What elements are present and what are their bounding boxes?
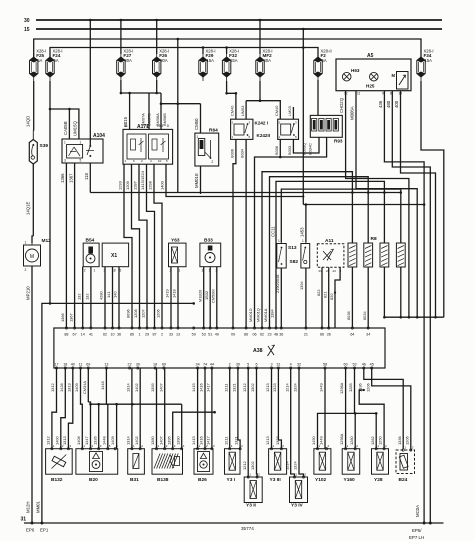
svg-text:1450: 1450 bbox=[311, 436, 316, 445]
svg-text:31: 31 bbox=[21, 517, 27, 523]
svg-text:A38: A38 bbox=[253, 348, 263, 354]
wire ground bus y303 bbox=[42, 303, 194, 523]
svg-text:41: 41 bbox=[89, 333, 93, 337]
wire ECU4 to Y3IV-1 bbox=[291, 368, 295, 477]
wire coil3 riser bbox=[276, 181, 384, 328]
wire right bus y317 bbox=[384, 316, 443, 318]
wire K242II out B003 to R93 bbox=[293, 137, 319, 153]
svg-text:1285: 1285 bbox=[348, 383, 353, 392]
svg-text:64: 64 bbox=[350, 333, 354, 337]
coil R8-3 bbox=[380, 243, 389, 267]
svg-text:45: 45 bbox=[370, 363, 374, 367]
svg-text:1206: 1206 bbox=[404, 436, 409, 445]
wire A11 out 821 bbox=[328, 267, 330, 328]
injector Y3 I bbox=[225, 449, 241, 475]
svg-text:1367: 1367 bbox=[68, 173, 73, 183]
wire F27 to rail30 bbox=[120, 20, 122, 54]
svg-text:11: 11 bbox=[125, 124, 129, 128]
svg-text:Y3 II: Y3 II bbox=[246, 503, 257, 509]
injector Y3 IV bbox=[290, 477, 308, 503]
junction MM01 ground bbox=[40, 522, 43, 525]
svg-text:32: 32 bbox=[297, 363, 301, 367]
sensor B54 bbox=[83, 238, 99, 273]
svg-text:8096: 8096 bbox=[126, 309, 131, 318]
svg-text:1: 1 bbox=[64, 141, 66, 145]
svg-text:MM01Q: MM01Q bbox=[256, 308, 261, 322]
svg-text:1324: 1324 bbox=[293, 383, 298, 392]
fuse F24 bbox=[46, 49, 63, 82]
svg-text:1323: 1323 bbox=[272, 383, 277, 392]
svg-text:1415: 1415 bbox=[191, 383, 196, 392]
switch S82 bbox=[301, 239, 310, 268]
wire ECU13 to B20-5 bbox=[105, 368, 107, 404]
wire W1 drop joins coil bus bbox=[177, 39, 179, 193]
svg-text:B31: B31 bbox=[130, 477, 139, 483]
svg-text:1380: 1380 bbox=[150, 436, 155, 445]
wire B54 out1 bbox=[82, 267, 84, 328]
wire ECU5 to Y3II-1 bbox=[247, 368, 249, 477]
wire coil2 to ECU bbox=[270, 177, 369, 328]
wire A171 out 1287 bbox=[139, 164, 147, 328]
svg-text:18: 18 bbox=[63, 363, 67, 367]
svg-text:86: 86 bbox=[244, 333, 248, 337]
relay K242 II bbox=[278, 119, 299, 139]
lamp H63 bbox=[342, 72, 351, 81]
svg-text:1: 1 bbox=[302, 239, 304, 243]
svg-text:480: 480 bbox=[386, 100, 391, 108]
svg-text:UM15Q: UM15Q bbox=[73, 121, 78, 136]
svg-text:B006: B006 bbox=[230, 149, 235, 158]
svg-text:10: 10 bbox=[158, 159, 162, 163]
wire S82 out bbox=[305, 268, 307, 328]
svg-text:1400: 1400 bbox=[54, 436, 59, 445]
ECU top pin numbers bbox=[64, 327, 370, 337]
svg-text:436: 436 bbox=[378, 100, 383, 108]
svg-text:B54: B54 bbox=[86, 238, 95, 244]
wire ECU31 to Y3III-2 bbox=[278, 368, 281, 449]
svg-text:2: 2 bbox=[161, 333, 163, 337]
svg-text:33: 33 bbox=[169, 333, 173, 337]
wire bus1 to B138-4 bbox=[181, 404, 183, 449]
svg-text:R93: R93 bbox=[334, 139, 343, 144]
svg-text:EP1: EP1 bbox=[40, 528, 49, 533]
wire A104 out 1367 bbox=[74, 163, 76, 328]
wire coil1 to ECU bbox=[262, 172, 352, 328]
svg-text:15: 15 bbox=[24, 27, 30, 33]
fuse F32 bbox=[222, 49, 239, 82]
svg-text:60: 60 bbox=[344, 363, 348, 367]
wire F2 down to R93 bbox=[317, 80, 319, 115]
svg-text:820: 820 bbox=[329, 293, 334, 300]
wire ECU34 to B26-1 bbox=[197, 368, 199, 449]
wire ECU39 to B31-2 bbox=[139, 368, 141, 449]
gauge icon bbox=[397, 72, 409, 90]
svg-text:1394: 1394 bbox=[299, 281, 304, 290]
wire S39 to M12 bbox=[32, 164, 34, 236]
svg-text:2190/2048: 2190/2048 bbox=[275, 275, 280, 293]
svg-text:15A: 15A bbox=[425, 58, 433, 63]
wire ECU44 to B26-3 bbox=[211, 368, 213, 449]
wire ECU22 to B31-1 bbox=[131, 368, 133, 449]
svg-text:M12H: M12H bbox=[26, 502, 31, 513]
svg-text:M006A: M006A bbox=[350, 106, 355, 120]
junction rail30/F27 bbox=[120, 19, 123, 22]
svg-text:M: M bbox=[392, 73, 396, 78]
wire Y63 out 1419 bbox=[170, 267, 172, 328]
wire X1 out 4280 bbox=[104, 267, 106, 328]
wire feeder W1 (F25 to F34) bbox=[34, 39, 421, 58]
svg-text:MM01: MM01 bbox=[36, 500, 41, 513]
svg-text:1298A: 1298A bbox=[339, 382, 344, 394]
svg-text:B24: B24 bbox=[399, 477, 408, 483]
svg-text:40: 40 bbox=[71, 363, 75, 367]
coil R8-2 bbox=[364, 243, 373, 267]
svg-text:15A: 15A bbox=[230, 58, 238, 63]
svg-text:B006: B006 bbox=[274, 146, 279, 155]
junction W2/F29 bbox=[202, 46, 205, 49]
svg-text:1213: 1213 bbox=[265, 383, 270, 392]
junction W1 drop x178 bbox=[177, 38, 180, 41]
svg-text:140: 140 bbox=[113, 291, 118, 298]
svg-text:14QD: 14QD bbox=[26, 116, 31, 127]
junction F24 branch bbox=[49, 108, 52, 111]
wire B33 out 1B32 bbox=[209, 267, 211, 328]
wire MF2 down to K242 coils bbox=[259, 81, 261, 101]
svg-text:9: 9 bbox=[382, 92, 384, 96]
resistor unit R64 bbox=[195, 128, 219, 167]
svg-text:1400: 1400 bbox=[160, 180, 165, 190]
svg-text:821: 821 bbox=[323, 292, 328, 299]
valve Y63 bbox=[169, 238, 187, 273]
svg-text:1336: 1336 bbox=[357, 383, 362, 392]
sensor B33 bbox=[200, 238, 221, 273]
junction coil2 riser bbox=[367, 191, 370, 194]
svg-text:1314: 1314 bbox=[126, 383, 131, 392]
svg-text:1367: 1367 bbox=[68, 313, 73, 322]
svg-text:1419: 1419 bbox=[165, 289, 170, 298]
wire ECU18 to B132-2 bbox=[61, 368, 66, 449]
wire K242I out B034 bbox=[245, 139, 247, 328]
svg-text:1209: 1209 bbox=[125, 180, 130, 190]
wire feeder W2 (F24 to F2) bbox=[50, 48, 318, 59]
fuse F27 bbox=[117, 49, 134, 82]
svg-text:B33: B33 bbox=[204, 238, 213, 244]
svg-text:30: 30 bbox=[236, 363, 240, 367]
fuse F29 bbox=[199, 49, 216, 82]
wire ECU17 to B132-1 bbox=[52, 368, 57, 449]
wire F34 down to right bus bbox=[421, 81, 444, 317]
svg-text:18: 18 bbox=[153, 363, 157, 367]
wire B138-3 bus2 bbox=[173, 412, 215, 449]
svg-text:1393: 1393 bbox=[150, 383, 155, 392]
svg-text:69: 69 bbox=[162, 363, 166, 367]
svg-text:5A: 5A bbox=[322, 58, 327, 63]
svg-text:Y3 IV: Y3 IV bbox=[291, 503, 304, 509]
svg-text:B034: B034 bbox=[240, 148, 245, 158]
svg-text:1: 1 bbox=[80, 141, 82, 145]
svg-text:1: 1 bbox=[25, 241, 27, 245]
fuse F25 bbox=[30, 49, 47, 82]
svg-text:5: 5 bbox=[247, 363, 249, 367]
wire B54 out2 bbox=[90, 267, 92, 328]
svg-text:66: 66 bbox=[320, 333, 324, 337]
wire node bus F27-F26 bbox=[121, 92, 161, 94]
svg-text:1: 1 bbox=[146, 124, 148, 128]
wire F26 down to node bbox=[156, 80, 158, 93]
wire ECU69 to B20-2 bbox=[87, 368, 89, 402]
svg-text:UM03: UM03 bbox=[240, 106, 245, 116]
svg-text:1321: 1321 bbox=[232, 383, 237, 392]
svg-text:74: 74 bbox=[203, 363, 207, 367]
wire R64 to bus bbox=[200, 166, 202, 194]
svg-text:B003Q: B003Q bbox=[302, 143, 307, 155]
svg-text:22: 22 bbox=[128, 363, 132, 367]
svg-text:1302: 1302 bbox=[250, 383, 255, 392]
svg-text:K242 I: K242 I bbox=[255, 121, 269, 126]
svg-text:822: 822 bbox=[316, 290, 321, 297]
svg-text:8: 8 bbox=[167, 124, 169, 128]
svg-text:1418: 1418 bbox=[172, 289, 177, 298]
svg-text:1417: 1417 bbox=[206, 383, 211, 392]
svg-text:23: 23 bbox=[267, 333, 271, 337]
svg-text:EP6: EP6 bbox=[26, 528, 35, 533]
wire X1 out 140 bbox=[118, 267, 120, 328]
wire ECU40 to B132-3 bbox=[68, 368, 72, 449]
wire A171 out 1415/1524 bbox=[147, 164, 155, 328]
svg-text:1321: 1321 bbox=[234, 436, 239, 445]
svg-text:B003: B003 bbox=[287, 146, 292, 155]
svg-text:1366: 1366 bbox=[60, 313, 65, 322]
svg-text:1409: 1409 bbox=[74, 383, 79, 392]
svg-text:MC0A: MC0A bbox=[415, 505, 420, 517]
valve Y160 bbox=[342, 449, 360, 475]
svg-text:21: 21 bbox=[304, 333, 308, 337]
wire K242II pin3 stub bbox=[292, 107, 294, 119]
svg-text:09: 09 bbox=[231, 333, 235, 337]
wire ECU60 to Y160-1 bbox=[345, 368, 347, 449]
sensor B24 (dashed) bbox=[396, 446, 415, 484]
svg-text:10: 10 bbox=[110, 333, 114, 337]
injector Y3 II bbox=[244, 477, 262, 503]
svg-text:CM34A: CM34A bbox=[82, 381, 87, 394]
svg-text:36: 36 bbox=[117, 333, 121, 337]
junction coil4 riser bbox=[400, 191, 403, 194]
svg-text:1233: 1233 bbox=[118, 180, 123, 190]
svg-text:14: 14 bbox=[81, 333, 85, 337]
svg-text:1390: 1390 bbox=[175, 436, 180, 445]
svg-text:69: 69 bbox=[86, 363, 90, 367]
wire Y28-2 feed bbox=[359, 390, 384, 449]
wire MF2 to rail30 bbox=[259, 20, 261, 54]
connector X1 bbox=[102, 243, 128, 272]
svg-text:CM40: CM40 bbox=[230, 105, 235, 116]
svg-text:13: 13 bbox=[104, 363, 108, 367]
svg-text:30: 30 bbox=[24, 18, 30, 24]
wire X1 out 141 bbox=[112, 267, 114, 328]
svg-text:35774: 35774 bbox=[241, 526, 254, 531]
svg-text:CM50: CM50 bbox=[194, 118, 199, 130]
svg-text:A11: A11 bbox=[325, 238, 334, 244]
svg-text:2: 2 bbox=[25, 268, 27, 272]
lamp H25 bbox=[370, 72, 379, 81]
resistor pack R93 bbox=[310, 115, 343, 143]
svg-text:1302: 1302 bbox=[250, 461, 255, 470]
svg-text:2: 2 bbox=[229, 363, 231, 367]
valve Y28 bbox=[372, 449, 389, 475]
svg-text:R64: R64 bbox=[209, 128, 218, 134]
wire ground bus1 bbox=[91, 403, 182, 405]
svg-text:Y3 III: Y3 III bbox=[270, 477, 282, 483]
svg-text:50: 50 bbox=[192, 333, 196, 337]
svg-text:H25: H25 bbox=[366, 84, 375, 89]
wire ECU6 to Y3II-2 bbox=[256, 368, 259, 477]
switch S13 bbox=[277, 239, 286, 268]
svg-text:67: 67 bbox=[73, 333, 77, 337]
svg-text:23: 23 bbox=[333, 269, 337, 273]
svg-text:1206: 1206 bbox=[365, 383, 370, 392]
wire F32 to K242I bbox=[227, 81, 236, 119]
wire rail 30 bbox=[36, 19, 442, 21]
svg-text:Y3 I: Y3 I bbox=[227, 477, 236, 483]
wire ECU74 to B26-2 bbox=[204, 368, 206, 449]
svg-text:3: 3 bbox=[64, 159, 66, 163]
relay K242 I bbox=[231, 119, 253, 139]
svg-text:CC11: CC11 bbox=[271, 226, 276, 237]
svg-text:MM01A: MM01A bbox=[263, 308, 268, 322]
svg-text:118: 118 bbox=[84, 173, 89, 180]
svg-text:K242II: K242II bbox=[257, 133, 271, 138]
fuse F34 bbox=[417, 49, 434, 82]
junction S82bus/right vertical bbox=[423, 203, 426, 206]
wire ECU to B138-1 bbox=[156, 368, 158, 449]
svg-text:51: 51 bbox=[208, 333, 212, 337]
motor M12 bbox=[24, 236, 52, 272]
wire drop to A171 pin8 bbox=[160, 93, 162, 129]
svg-text:1207: 1207 bbox=[141, 309, 146, 318]
svg-text:87: 87 bbox=[152, 333, 156, 337]
svg-text:34: 34 bbox=[366, 333, 370, 337]
wire F26 to rail30 bbox=[156, 20, 158, 54]
wire A11 out 822 bbox=[321, 267, 323, 328]
junction rail30/MF2 bbox=[259, 19, 262, 22]
svg-text:1211: 1211 bbox=[223, 384, 228, 392]
wire ECU45 to B24-2 bbox=[372, 368, 411, 449]
svg-text:B20: B20 bbox=[89, 477, 98, 483]
wire F29 to W2 bbox=[202, 48, 204, 55]
svg-text:31: 31 bbox=[276, 363, 280, 367]
wire coil bus y192.5 bbox=[90, 192, 401, 194]
wire bus y413 bbox=[318, 413, 377, 448]
junction W2/F32 bbox=[225, 46, 228, 49]
svg-text:1408: 1408 bbox=[76, 436, 81, 445]
svg-text:B26: B26 bbox=[198, 477, 207, 483]
svg-text:44: 44 bbox=[210, 363, 214, 367]
svg-text:8034: 8034 bbox=[362, 311, 367, 320]
svg-text:R8: R8 bbox=[371, 236, 377, 242]
svg-text:1B32: 1B32 bbox=[204, 291, 209, 300]
svg-text:B034C: B034C bbox=[308, 143, 313, 155]
wire A171 out 1209 bbox=[132, 164, 140, 328]
svg-text:1366: 1366 bbox=[60, 173, 65, 183]
svg-text:29: 29 bbox=[145, 333, 149, 337]
svg-text:132: 132 bbox=[85, 294, 90, 301]
wire rail15 drop to S82 bus bbox=[302, 29, 304, 205]
wire ECU3 to Y3III-1 bbox=[271, 368, 273, 449]
injector Y3 III bbox=[269, 449, 287, 475]
wire A5 pin11 out M006A bbox=[356, 91, 417, 318]
sensor B26 bbox=[194, 444, 215, 483]
svg-text:14Q1E: 14Q1E bbox=[26, 201, 31, 215]
junction W2/rail15 drop bbox=[302, 46, 305, 49]
svg-text:13: 13 bbox=[176, 333, 180, 337]
svg-text:30A: 30A bbox=[124, 58, 132, 63]
coil R8-1 bbox=[348, 243, 357, 267]
svg-text:1449: 1449 bbox=[319, 383, 324, 392]
svg-text:132: 132 bbox=[76, 294, 81, 301]
wire M12 to ground bbox=[31, 266, 33, 523]
svg-text:1313: 1313 bbox=[66, 383, 71, 392]
svg-text:1407: 1407 bbox=[158, 383, 163, 392]
svg-text:H63: H63 bbox=[351, 68, 360, 73]
ECU A38 bbox=[54, 328, 385, 368]
ECU bottom pin numbers bbox=[54, 363, 373, 370]
svg-text:58: 58 bbox=[323, 363, 327, 367]
wire S13 out bbox=[280, 268, 282, 328]
svg-text:CHD2Q: CHD2Q bbox=[339, 97, 344, 113]
svg-text:1448: 1448 bbox=[101, 436, 106, 445]
svg-text:141: 141 bbox=[106, 292, 111, 299]
svg-text:1415/1524: 1415/1524 bbox=[140, 170, 145, 190]
svg-text:6: 6 bbox=[255, 363, 257, 367]
wire bus1 to B20-6 bbox=[116, 404, 118, 449]
svg-text:1212: 1212 bbox=[242, 461, 247, 470]
svg-text:S82: S82 bbox=[290, 259, 299, 265]
wire coil3 out bbox=[383, 267, 385, 317]
svg-text:17: 17 bbox=[54, 363, 58, 367]
svg-text:1214: 1214 bbox=[284, 383, 289, 392]
svg-text:15A: 15A bbox=[207, 58, 215, 63]
wire A171 out 1298 bbox=[154, 164, 162, 328]
svg-text:5: 5 bbox=[80, 159, 82, 163]
junction right ground 436 bbox=[423, 522, 426, 525]
sensor B138 bbox=[152, 444, 185, 483]
svg-text:11: 11 bbox=[79, 363, 83, 367]
svg-text:1402: 1402 bbox=[134, 383, 139, 392]
wire coil4 riser to S13/ECU bbox=[281, 189, 401, 243]
wire ECU53 to Y160-2 bbox=[354, 368, 357, 449]
svg-text:1212: 1212 bbox=[242, 383, 247, 392]
svg-text:1298A: 1298A bbox=[339, 433, 344, 445]
wire coil4 out bbox=[400, 267, 402, 317]
svg-text:1384: 1384 bbox=[270, 309, 275, 318]
svg-text:53: 53 bbox=[352, 363, 356, 367]
wire K242I out B006 bbox=[233, 139, 236, 328]
sensor B20 bbox=[76, 444, 118, 483]
svg-text:62: 62 bbox=[260, 333, 264, 337]
svg-text:LM03: LM03 bbox=[287, 106, 292, 116]
wire S82 bus bbox=[303, 204, 424, 206]
wire A5 pin9 out 436 bbox=[384, 91, 424, 523]
svg-text:EP7 LH: EP7 LH bbox=[409, 535, 424, 540]
svg-text:30A: 30A bbox=[160, 58, 168, 63]
wire B33 out M1B20 bbox=[203, 267, 205, 328]
svg-text:62: 62 bbox=[103, 333, 107, 337]
svg-text:1206: 1206 bbox=[156, 309, 161, 318]
junction rail30/F26 bbox=[155, 19, 158, 22]
svg-text:15 3: 15 3 bbox=[157, 124, 163, 128]
svg-text:1208: 1208 bbox=[133, 309, 138, 318]
wire bus1 to B20-3 bbox=[98, 404, 100, 449]
